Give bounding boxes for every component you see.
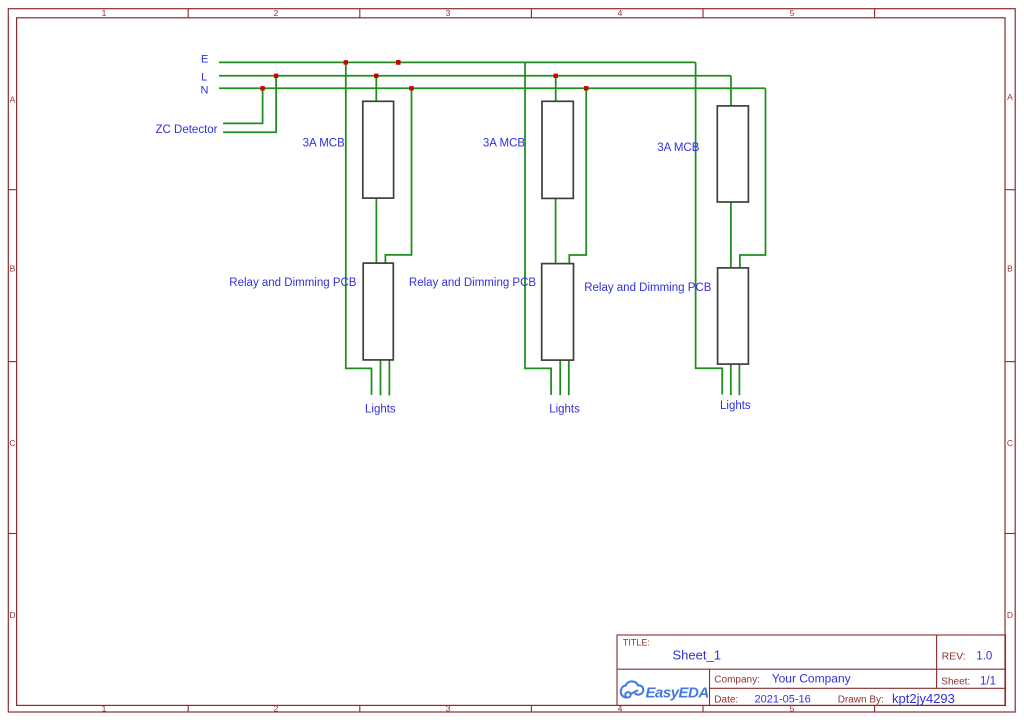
wire N drop column 1 to relay 1 (385, 88, 411, 263)
relay 1 body (363, 263, 393, 360)
svg-text:E: E (201, 54, 208, 66)
frame row letters right (1007, 92, 1013, 620)
wire E drop column 2 to lights (525, 62, 551, 395)
svg-text:C: C (1007, 438, 1013, 448)
svg-text:Sheet_1: Sheet_1 (673, 647, 721, 662)
svg-text:2021-05-16: 2021-05-16 (755, 693, 811, 705)
wire E bus horizontal (219, 61, 696, 63)
svg-text:Your Company: Your Company (772, 672, 851, 686)
relay 2 body (542, 264, 574, 361)
svg-text:3: 3 (446, 8, 451, 18)
wire N bus horizontal (219, 87, 766, 89)
svg-text:REV:: REV: (942, 650, 966, 662)
svg-text:Lights: Lights (549, 403, 580, 415)
title block outline (617, 635, 1006, 706)
wire L drop to MCB3 top (730, 76, 732, 106)
junction on E at column 1 drop (344, 60, 348, 64)
svg-text:A: A (1007, 92, 1013, 102)
title block vertical divider before REV/Sheet cells (936, 635, 938, 688)
svg-text:Sheet:: Sheet: (941, 677, 970, 688)
frame row ticks left (8, 190, 16, 534)
svg-text:2: 2 (274, 8, 279, 18)
junction on L at ZC stub (274, 74, 278, 78)
svg-text:3A MCB: 3A MCB (657, 142, 700, 154)
wire MCB1 bottom to relay 1 top (375, 198, 377, 263)
svg-text:2: 2 (274, 704, 279, 714)
svg-text:1: 1 (102, 8, 107, 18)
wire relay 3 light output b (738, 364, 740, 395)
svg-text:Company:: Company: (714, 675, 760, 686)
frame column ticks bottom (188, 705, 874, 712)
svg-text:C: C (9, 438, 15, 448)
frame row ticks right (1005, 190, 1015, 534)
svg-text:EasyEDA: EasyEDA (646, 685, 709, 702)
wire ZC detector stub from N (223, 88, 263, 123)
svg-text:1/1: 1/1 (980, 676, 996, 688)
wire E drop column 3 to lights (696, 62, 723, 394)
wire ZC detector stub from L (223, 76, 276, 133)
svg-text:B: B (10, 264, 16, 274)
title block divider between company and date rows (710, 687, 1006, 689)
junction on N at ZC stub (260, 86, 264, 90)
junction on N at column 2 drop (584, 86, 588, 90)
wire MCB2 bottom to relay 2 top (555, 198, 557, 264)
junction on N at column 1 drop (409, 86, 413, 90)
svg-text:3A MCB: 3A MCB (303, 137, 346, 149)
svg-text:1.0: 1.0 (976, 650, 992, 662)
svg-text:1: 1 (102, 704, 107, 714)
wire relay 1 light output b (388, 360, 390, 396)
wire N drop column 2 to relay 2 (569, 88, 586, 264)
svg-text:kpt2jy4293: kpt2jy4293 (892, 691, 955, 706)
frame row letters left (9, 95, 15, 621)
svg-text:N: N (201, 84, 209, 96)
title block divider below title row (617, 668, 1006, 670)
svg-text:D: D (1007, 610, 1013, 620)
svg-text:Relay and Dimming PCB: Relay and Dimming PCB (409, 277, 537, 289)
MCB 3 body (717, 106, 748, 202)
wire relay 2 light output a (559, 360, 561, 395)
svg-text:D: D (9, 610, 15, 620)
frame column ticks top (188, 9, 874, 18)
svg-text:Lights: Lights (720, 400, 751, 412)
wire MCB3 bottom to relay 3 top (730, 202, 732, 268)
svg-text:ZC Detector: ZC Detector (156, 124, 218, 136)
wire relay 1 light output a (380, 360, 382, 396)
wire relay 3 light output a (730, 364, 732, 395)
svg-text:B: B (1007, 264, 1013, 274)
svg-text:Date:: Date: (714, 694, 738, 705)
relay 3 body (718, 268, 749, 364)
frame column numbers top (102, 8, 795, 18)
wire N drop column 3 to relay 3 (740, 88, 766, 268)
wire L bus horizontal (219, 75, 731, 77)
svg-text:A: A (10, 95, 16, 105)
wire L to MCB2 top (555, 76, 557, 102)
EasyEDA logo cloud icon (621, 681, 644, 697)
svg-text:L: L (201, 72, 207, 84)
svg-text:Relay and Dimming PCB: Relay and Dimming PCB (229, 277, 357, 289)
wire E drop column 1 to lights (346, 62, 372, 395)
junction on L at MCB2 (554, 74, 558, 78)
MCB 2 body (542, 101, 573, 198)
svg-text:Lights: Lights (365, 403, 396, 415)
frame column numbers bottom (102, 704, 795, 714)
junction on L at MCB1 (374, 74, 378, 78)
title block vertical divider right of logo cell (709, 669, 711, 705)
wire relay 2 light output b (568, 360, 570, 395)
svg-text:TITLE:: TITLE: (623, 637, 650, 647)
wire L to MCB1 top (375, 76, 377, 102)
svg-text:Drawn By:: Drawn By: (838, 694, 884, 705)
MCB 1 body (363, 101, 394, 198)
svg-text:3: 3 (446, 704, 451, 714)
svg-text:Relay and Dimming PCB: Relay and Dimming PCB (584, 282, 712, 294)
junction on E wire joint (396, 60, 400, 65)
svg-text:5: 5 (790, 8, 795, 18)
svg-text:4: 4 (618, 8, 623, 18)
svg-text:3A MCB: 3A MCB (483, 137, 526, 149)
